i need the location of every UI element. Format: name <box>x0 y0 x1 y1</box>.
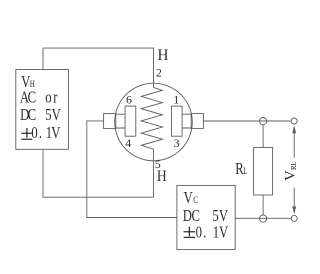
VRL dimension line lower <box>293 188 295 211</box>
svg-text:2: 2 <box>156 66 162 80</box>
wire heater pin 5 to VH bottom <box>43 149 154 197</box>
left lead block <box>104 114 116 129</box>
right electrode plate <box>171 106 182 136</box>
output terminal top <box>291 118 297 124</box>
wire VH top to heater pin 2 <box>43 48 154 87</box>
VRL arrow up <box>292 125 296 133</box>
right lead block <box>191 114 203 129</box>
left electrode plate <box>125 106 136 136</box>
plus-minus sign VH <box>21 128 32 139</box>
VRL arrow down <box>292 206 296 214</box>
svg-text:0.1V: 0.1V <box>31 124 60 142</box>
heater zigzag <box>141 87 162 149</box>
resistor RL bottom lead <box>262 195 264 215</box>
output terminal bottom <box>291 215 297 221</box>
resistor RL top lead <box>262 125 264 148</box>
plus-minus sign VC <box>184 227 196 238</box>
junction node top <box>260 118 267 125</box>
svg-text:1: 1 <box>173 93 179 107</box>
wire left electrode to VC left <box>87 121 177 218</box>
sensor envelope circle <box>115 83 193 161</box>
svg-text:H: H <box>157 168 167 185</box>
wire VC right to bottom terminal <box>235 217 291 219</box>
svg-text:3: 3 <box>174 136 180 150</box>
svg-text:6: 6 <box>126 93 132 107</box>
voltage source VC box <box>177 185 235 249</box>
svg-text:H: H <box>158 47 169 64</box>
voltage source VH box <box>16 70 69 150</box>
svg-text:0.1V: 0.1V <box>196 224 229 242</box>
left lead links <box>116 114 125 128</box>
right lead links <box>182 114 191 128</box>
wire right electrode to output <box>203 120 290 122</box>
VRL dimension line upper <box>293 133 295 158</box>
junction node bottom <box>260 215 267 222</box>
resistor RL body <box>254 147 273 195</box>
svg-text:4: 4 <box>125 136 131 150</box>
